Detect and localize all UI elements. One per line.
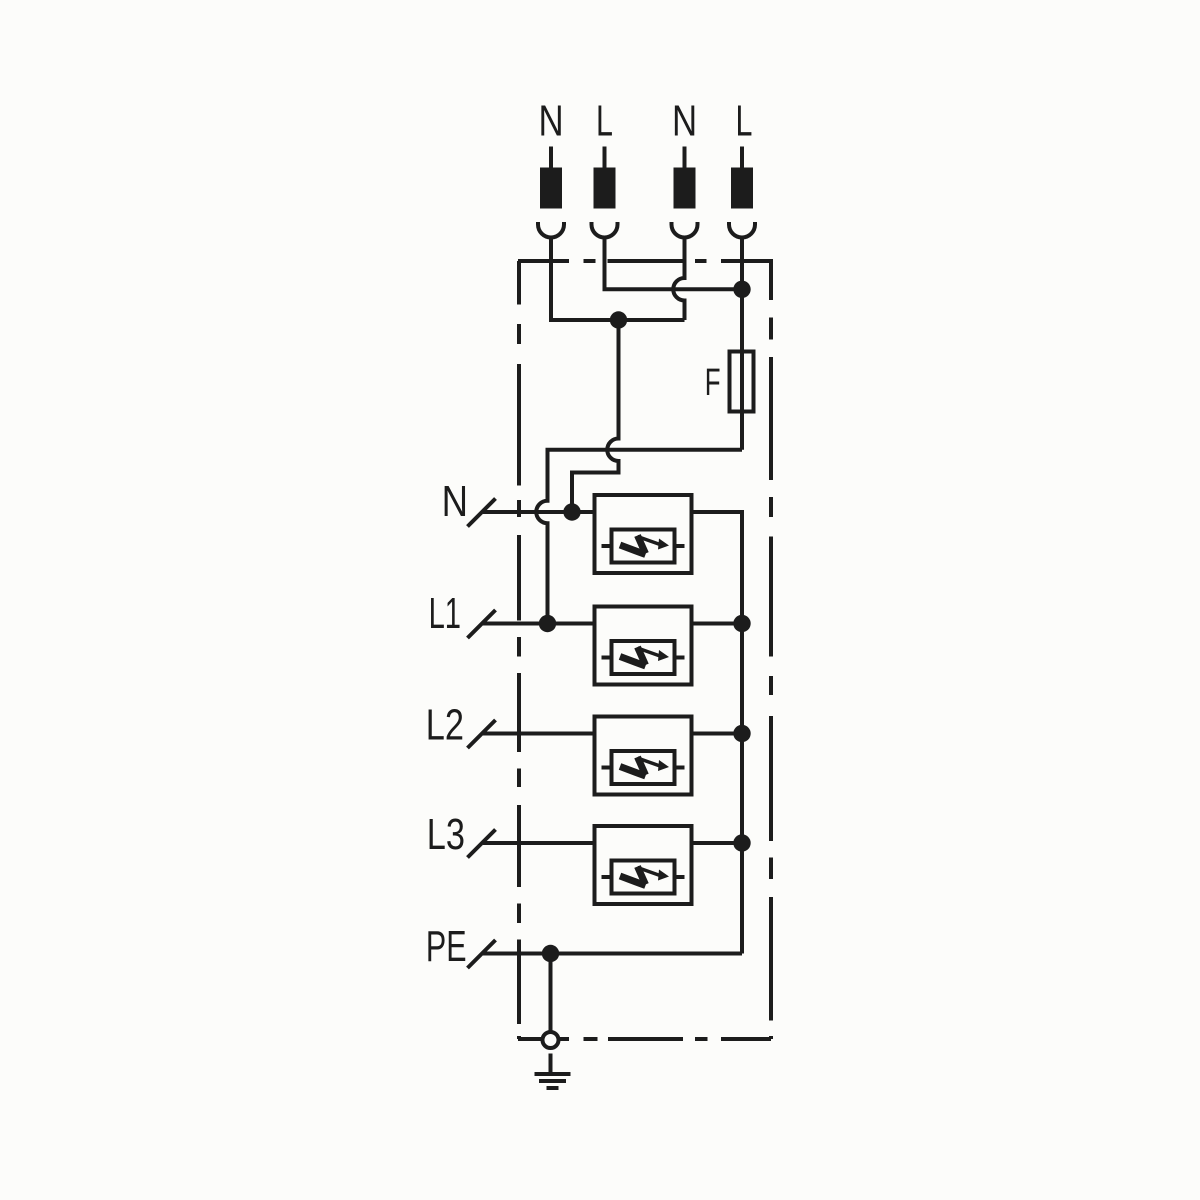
terminal L2top body	[731, 168, 753, 209]
node PE junction dot	[542, 945, 559, 962]
ground symbol bars	[535, 1074, 571, 1088]
node L1 row junction dot	[539, 615, 556, 632]
node bus L1 junction dot	[733, 615, 750, 632]
wire from fuse corner left then down with hop over N row to L1 row	[536, 450, 742, 624]
terminal N1 pin stub	[549, 147, 553, 169]
SPD module U2 surge arrow	[620, 647, 669, 666]
wire N row	[483, 510, 595, 514]
wire PE stem down to earth terminal	[549, 954, 553, 1031]
SPD module U3 inner leads	[602, 766, 685, 770]
terminal L1top pin stub	[603, 147, 607, 169]
svg-text:N: N	[672, 97, 697, 146]
svg-text:N: N	[538, 97, 563, 146]
break slash L2 row	[468, 720, 496, 748]
SPD module U1 box	[595, 495, 692, 573]
node N row junction dot	[563, 503, 580, 520]
svg-text:N: N	[442, 477, 468, 526]
svg-text:L1: L1	[429, 588, 461, 637]
SPD module U4 box	[595, 826, 692, 904]
svg-text:PE: PE	[426, 922, 467, 971]
terminal N2 pin stub	[683, 147, 687, 169]
break slash L3 row	[468, 830, 496, 858]
wire SPD U2 right lead	[692, 622, 743, 626]
enclosure bottom border dash-dot	[518, 1037, 771, 1041]
terminal L1top clamp cup	[592, 222, 618, 238]
SPD module U2 inner gap box	[612, 641, 675, 674]
wire L3 row	[483, 841, 595, 845]
terminal N1 body	[540, 168, 562, 209]
SPD module U3 inner gap box	[612, 751, 675, 784]
SPD module U4 inner leads	[602, 875, 685, 879]
svg-text:L3: L3	[427, 811, 465, 859]
enclosure right border dash-dot	[769, 259, 773, 1039]
terminal N2 body	[674, 168, 696, 209]
ground symbol stem	[549, 1054, 553, 1073]
node L-link junction dot	[733, 281, 750, 298]
enclosure top border dash-dot	[518, 259, 771, 263]
wire L1 row	[483, 622, 595, 626]
SPD module U1 inner gap box	[612, 530, 675, 563]
SPD module U3 surge arrow	[620, 757, 669, 776]
enclosure left border dash-dot	[517, 261, 521, 1039]
terminal L1top body	[594, 168, 616, 209]
wire from terminal N2 down with hop over L link	[673, 238, 684, 321]
break slash N row	[468, 499, 496, 527]
wire from N junction down with hop, jog left to N row	[572, 320, 619, 512]
node bus L2 junction dot	[733, 725, 750, 742]
terminal L2top pin stub	[740, 147, 744, 169]
SPD module U2 box	[595, 607, 692, 685]
svg-text:L: L	[596, 96, 613, 145]
SPD module U1 surge arrow	[620, 536, 669, 555]
wire SPD U1 right lead to bus	[692, 512, 743, 954]
SPD module U4 surge arrow	[620, 867, 669, 886]
svg-text:L2: L2	[426, 702, 464, 750]
fuse F body	[730, 352, 754, 412]
node bus L3 junction dot	[733, 834, 750, 851]
node N-link junction dot	[610, 311, 627, 328]
terminal N2 clamp cup	[672, 222, 698, 238]
wire SPD U3 right lead	[692, 732, 743, 736]
wire SPD U4 right lead	[692, 841, 743, 845]
svg-text:L: L	[736, 96, 753, 145]
SPD module U3 box	[595, 717, 692, 795]
wire PE row	[483, 952, 742, 956]
svg-text:F: F	[705, 361, 721, 403]
wire L2 row	[483, 732, 595, 736]
terminal N1 clamp cup	[538, 222, 564, 238]
break slash PE row	[468, 940, 496, 968]
break slash L1 row	[468, 610, 496, 638]
terminal L2top clamp cup	[729, 222, 755, 238]
wire from terminal L2top down to fuse and through to corner	[740, 238, 744, 450]
earth terminal circle	[543, 1032, 559, 1048]
SPD module U1 inner leads	[602, 544, 685, 548]
wire L link from L1top down and right to L2top	[605, 238, 743, 290]
SPD module U4 inner gap box	[612, 861, 675, 894]
wire from terminal N1 down and right to N2 wire	[551, 238, 685, 321]
SPD module U2 inner leads	[602, 656, 685, 660]
